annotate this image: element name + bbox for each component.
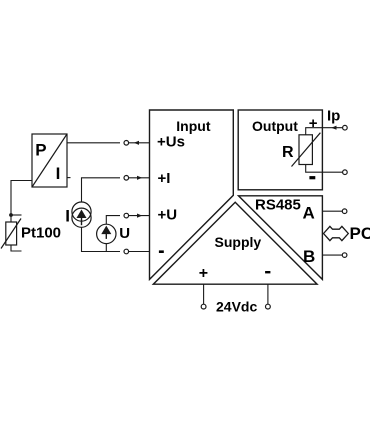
svg-text:+: + [199,265,208,282]
svg-text:B: B [303,247,315,266]
wire box to output minus terminal [322,171,342,173]
svg-text:RS485: RS485 [255,197,301,214]
pin label +Us [157,134,185,151]
label I (pin of U1) [56,164,61,183]
pin label +U [158,207,178,224]
node junction dot at Pt100 top [9,213,13,217]
bidirectional arrow RS485 to PC [324,226,349,240]
terminal B [342,253,347,258]
label minus (supply) [265,271,270,273]
terminal output minus [343,170,348,175]
svg-text:Pt100: Pt100 [21,224,61,241]
wire terminal to Input minus [129,251,150,253]
label R [282,144,294,161]
transducer U1 P/I converter box [32,134,67,187]
voltage source V1 [97,224,116,243]
wire supply plus to terminal [203,284,205,304]
wire U1 left lead down to Pt100 [11,181,32,223]
label plus (output) [309,115,318,132]
svg-text:PC: PC [350,224,370,243]
label U (source V1) [119,225,130,242]
svg-text:+: + [309,115,318,132]
svg-text:Input: Input [176,118,211,134]
svg-text:I: I [65,206,70,225]
Output block outline [238,110,322,190]
svg-text:+Us: +Us [157,134,185,151]
pin label +I [158,170,171,187]
terminal supply plus [201,304,206,309]
wire I1 top to +I terminal [82,178,121,202]
terminal +U [124,213,129,218]
resistor R (output load) [292,133,321,167]
resistor RT1 Pt100 body [1,219,21,249]
svg-text:P: P [35,140,46,159]
svg-text:Output: Output [252,118,298,134]
label Supply [215,234,262,250]
wire terminal to Input +I with arrow in [129,176,150,180]
svg-text:I: I [56,164,61,183]
svg-text:Ip: Ip [327,108,340,125]
wire stub right from junction [11,214,22,216]
current source I1 [72,202,91,227]
wire R top to box edge [306,128,323,135]
svg-text:R: R [282,144,294,161]
arrow inside I1 [78,211,86,225]
label Output [252,118,298,134]
terminal +Us [124,141,129,146]
RS485 block outline [239,196,323,280]
svg-text:+I: +I [158,170,171,187]
label I (source I1) [65,206,70,225]
wire terminal to Input +U with arrow in [129,214,150,218]
wire box to Ip terminal with arrow in [322,126,342,130]
wire supply minus to terminal [267,284,269,304]
wire R bottom to box edge [306,165,323,173]
label Ip [327,108,340,125]
label plus (supply) [199,265,208,282]
label RS485 [255,197,301,214]
wire Pt100 bottom stub [11,245,22,251]
pin label minus [159,250,164,253]
label PC [350,224,370,243]
Input block outline [150,110,234,279]
Supply block outline [153,202,317,284]
wire A to terminal [322,210,342,212]
wire V1 bottom to minus rail [105,244,107,252]
terminal +I [124,176,129,181]
terminal Ip [343,125,348,130]
label P (pin of U1) [35,140,46,159]
label Input [176,118,211,134]
svg-text:A: A [303,204,315,223]
label 24Vdc [216,299,257,315]
wire V1 top to +U terminal [106,216,120,225]
wire I1 bottom to minus rail [82,227,121,251]
svg-text:+U: +U [158,207,178,224]
terminal minus input [124,249,129,254]
terminal supply minus [266,304,271,309]
svg-text:24Vdc: 24Vdc [216,299,257,315]
svg-text:U: U [119,225,130,242]
pin label A [303,204,315,223]
wire B to terminal [322,254,342,256]
wire U1 out to +Us terminal [67,142,120,144]
svg-text:Supply: Supply [215,234,262,250]
terminal A [342,209,347,214]
label Pt100 [21,224,61,241]
wire terminal to Input +Us with arrow out [129,141,150,145]
arrow inside V1 [103,227,111,239]
wire U1 I-output stub [67,177,71,179]
label minus (output) [309,176,315,179]
pin label B [303,247,315,266]
